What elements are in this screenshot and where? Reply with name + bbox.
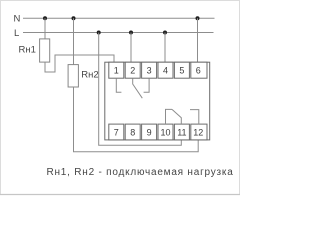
svg-text:L: L: [14, 28, 19, 39]
terminal 2: [125, 62, 140, 78]
svg-text:5: 5: [179, 66, 184, 76]
resistor Rн1: [40, 39, 50, 62]
junction L / terminal 11: [97, 31, 101, 35]
junction L / terminal 2: [129, 31, 133, 35]
svg-text:4: 4: [163, 66, 168, 76]
terminal 8: [125, 124, 140, 140]
svg-text:1: 1: [114, 66, 119, 76]
relay contact K1 (terminals 1-2-3): [116, 78, 149, 98]
wire L to terminal 2: [130, 33, 132, 63]
wire N bus: [23, 17, 215, 19]
svg-text:N: N: [14, 14, 21, 25]
relay module outline: [105, 62, 210, 140]
svg-text:7: 7: [114, 127, 119, 137]
svg-text:8: 8: [130, 127, 135, 137]
wire Rн2 to terminal 12: [74, 87, 199, 152]
wire N to Rн2: [73, 18, 75, 64]
terminal 1: [109, 62, 124, 78]
svg-text:3: 3: [147, 66, 152, 76]
terminal 4: [158, 62, 173, 78]
wire L bus: [23, 32, 214, 34]
terminal 3: [142, 62, 157, 78]
svg-text:Rн2: Rн2: [81, 69, 98, 80]
terminal 9: [142, 124, 157, 140]
resistor Rн2: [68, 65, 78, 87]
svg-text:6: 6: [196, 66, 201, 76]
svg-text:Rн1: Rн1: [19, 45, 36, 56]
junction N / Rн2: [72, 16, 76, 20]
wire N to Rн1: [44, 18, 46, 39]
svg-text:11: 11: [177, 127, 186, 137]
terminal 6: [191, 62, 207, 78]
terminal 5: [174, 62, 189, 78]
junction N / terminal 6: [196, 16, 200, 20]
wire N to terminal 6: [197, 18, 199, 62]
svg-text:2: 2: [130, 66, 135, 76]
terminal 11: [174, 124, 189, 140]
terminal 7: [109, 124, 124, 140]
wire L to terminal 11: [99, 33, 182, 146]
svg-text:12: 12: [193, 127, 203, 137]
wire L to terminal 4: [164, 33, 166, 63]
terminal 12: [191, 124, 207, 140]
relay contact K2 (terminals 10-11-12): [166, 109, 199, 124]
terminal 10: [158, 124, 173, 140]
svg-text:Rн1, Rн2 - подключаемая нагруз: Rн1, Rн2 - подключаемая нагрузка: [47, 167, 234, 178]
junction N / Rн1: [43, 16, 47, 20]
svg-text:9: 9: [147, 127, 152, 137]
junction L / terminal 4: [163, 31, 167, 35]
wire Rн1 to terminal 1: [45, 55, 114, 72]
svg-text:10: 10: [160, 127, 170, 137]
